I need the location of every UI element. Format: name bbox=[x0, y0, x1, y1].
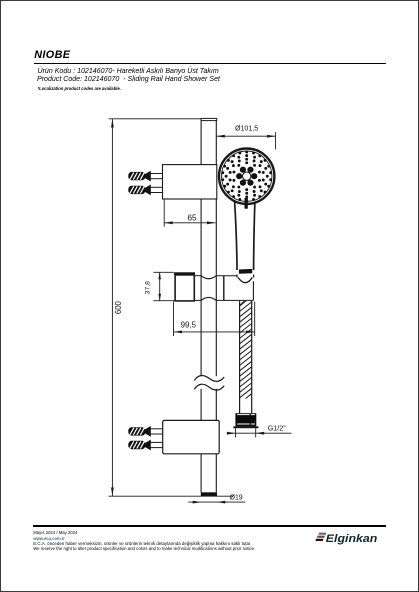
svg-text:Ø101,5: Ø101,5 bbox=[235, 125, 258, 133]
svg-text:Ø19: Ø19 bbox=[230, 494, 243, 501]
svg-text:Elginkan: Elginkan bbox=[326, 533, 378, 545]
svg-text:G1/2”: G1/2” bbox=[268, 423, 287, 432]
svg-text:600: 600 bbox=[114, 300, 123, 314]
svg-text:65: 65 bbox=[187, 213, 197, 222]
svg-text:37,8: 37,8 bbox=[145, 281, 152, 294]
svg-text:99,5: 99,5 bbox=[181, 321, 197, 330]
